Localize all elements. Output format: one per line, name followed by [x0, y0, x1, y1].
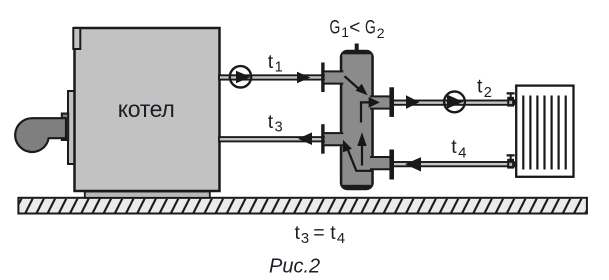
svg-text:2: 2 [484, 85, 492, 101]
svg-text:3: 3 [275, 120, 283, 136]
svg-text:Рис.2: Рис.2 [269, 255, 320, 277]
svg-text:t: t [451, 136, 457, 158]
svg-text:t: t [477, 76, 483, 98]
svg-text:котел: котел [118, 96, 175, 122]
svg-text:=: = [313, 222, 324, 244]
svg-text:t: t [268, 51, 274, 73]
svg-text:3: 3 [301, 231, 309, 247]
svg-text:t: t [330, 222, 336, 244]
svg-text:2: 2 [377, 25, 385, 41]
svg-text:1: 1 [275, 60, 283, 76]
svg-text:1: 1 [341, 24, 349, 40]
svg-text:G: G [365, 17, 376, 38]
svg-text:4: 4 [337, 231, 345, 247]
svg-text:<: < [349, 17, 360, 38]
svg-text:G: G [330, 17, 341, 38]
svg-text:t: t [268, 111, 274, 133]
svg-text:t: t [295, 222, 301, 244]
svg-text:4: 4 [458, 145, 466, 162]
